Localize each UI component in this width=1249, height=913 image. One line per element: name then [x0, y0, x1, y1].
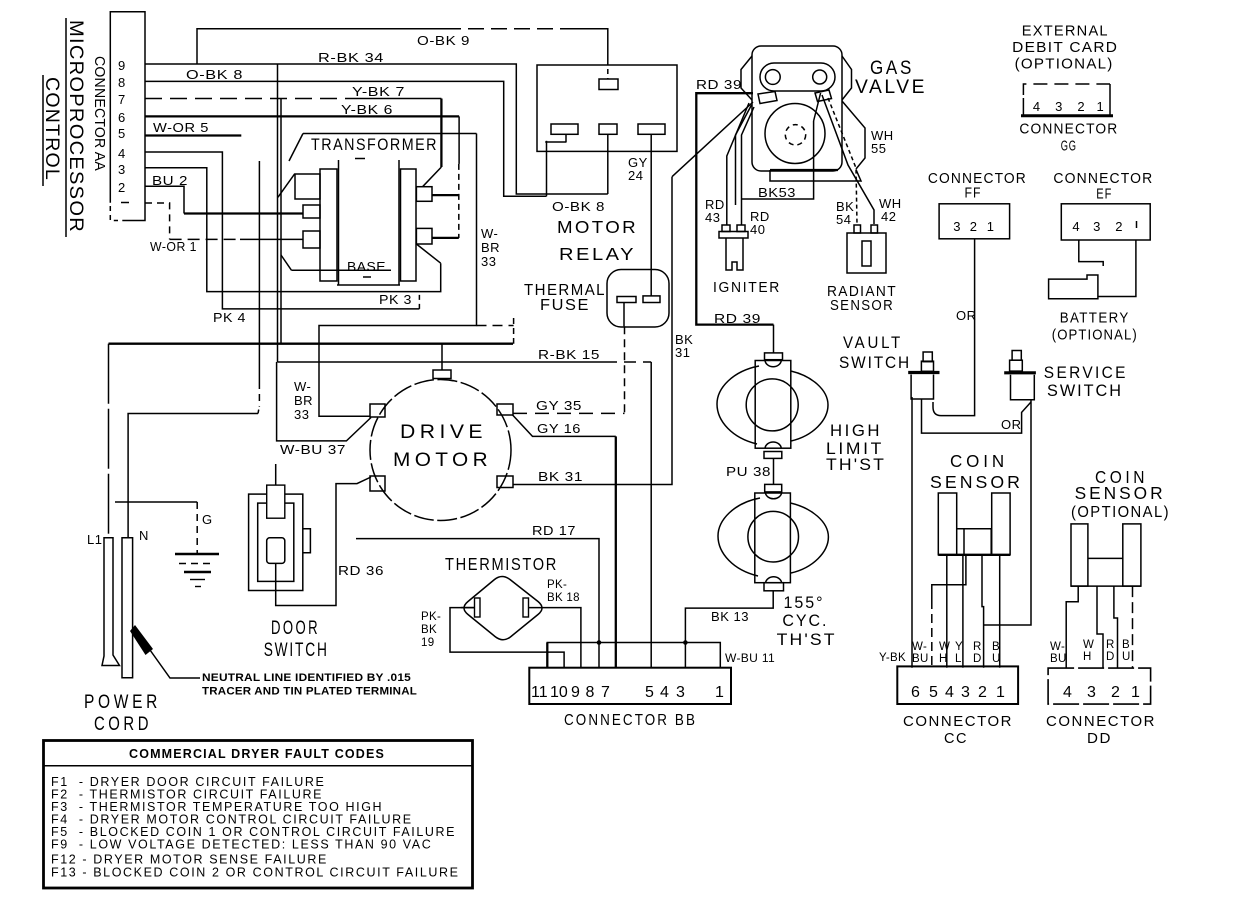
- junction dot BK13/W-BU11: [683, 640, 688, 645]
- svg-text:CONNECTOR BB: CONNECTOR BB: [564, 712, 697, 729]
- svg-text:3: 3: [1055, 99, 1063, 114]
- radiant wire dashed: [828, 98, 857, 224]
- transformer top-left diagonal: [289, 134, 303, 162]
- high limit top cap: [765, 361, 781, 367]
- gas valve inner circle dashed: [785, 125, 805, 145]
- svg-text:COIN: COIN: [950, 451, 1008, 471]
- table outer box: [44, 741, 473, 889]
- wire R-BK 15 dashed: [605, 361, 651, 363]
- svg-text:31: 31: [675, 345, 690, 360]
- connector BB box: [529, 668, 731, 704]
- wire dashed extension y325: [477, 325, 514, 327]
- wire ground pigtail: [115, 501, 197, 503]
- gas valve right wing: [842, 56, 852, 100]
- transformer core bottom plate: [337, 284, 400, 286]
- relay bold elbow horizontal: [545, 141, 566, 143]
- transformer right winding: [401, 169, 417, 281]
- wire vertical x281: [280, 99, 282, 344]
- svg-text:CONNECTOR: CONNECTOR: [1046, 714, 1156, 730]
- motor relay box: [537, 65, 677, 151]
- relay top pin: [599, 79, 618, 90]
- wire BU 2 / pin 2: [145, 186, 184, 213]
- svg-text:10: 10: [550, 684, 568, 701]
- wire YL to CC3: [962, 555, 964, 668]
- svg-text:BU: BU: [912, 653, 929, 665]
- vault switch tip: [921, 399, 923, 402]
- drive motor circle: [370, 380, 511, 521]
- wire W-OR 1 dashed part: [170, 238, 240, 240]
- svg-text:W-: W-: [912, 641, 927, 653]
- svg-text:PK-: PK-: [547, 579, 567, 591]
- wire Y-BK 6 drop: [458, 116, 460, 163]
- transformer middle-left pin box: [303, 205, 320, 218]
- wire W-OR 5 bold stub: [145, 134, 241, 136]
- svg-text:1: 1: [996, 684, 1005, 701]
- gas valve bottom bold edge: [770, 169, 838, 171]
- wire GY 24 vertical: [650, 134, 652, 296]
- svg-text:TH'ST: TH'ST: [777, 631, 837, 649]
- svg-text:6: 6: [118, 110, 126, 125]
- wire x259 vertical: [258, 161, 260, 382]
- wire PK-BK 18: [529, 608, 581, 668]
- wire R-BK 34 / pin 9: [145, 64, 608, 194]
- wire Y-BK 7 dashed part: [145, 98, 345, 100]
- svg-text:RD 36: RD 36: [338, 563, 384, 578]
- igniter bar: [719, 232, 748, 239]
- wire N riser: [128, 414, 258, 538]
- relay pin A: [551, 124, 578, 134]
- svg-text:155°: 155°: [784, 594, 825, 612]
- gas valve right coil circle: [813, 70, 827, 84]
- connector FF box: [939, 204, 1010, 239]
- svg-text:O-BK 8: O-BK 8: [552, 199, 605, 214]
- 155 left wing: [718, 498, 760, 576]
- relay pin B drop: [607, 134, 609, 194]
- svg-text:F13 - BLOCKED COIN 2 OR CONTRO: F13 - BLOCKED COIN 2 OR CONTROL CIRCUIT …: [51, 866, 460, 880]
- coin sensor right prong: [992, 493, 1010, 555]
- 155 disc circle: [748, 511, 799, 562]
- underline of CONTROL: [42, 75, 44, 186]
- svg-text:L: L: [955, 653, 962, 665]
- wire W-BU 11 bold left drop: [546, 643, 548, 668]
- svg-text:54: 54: [836, 212, 851, 227]
- wire EF pin1 to battery: [1098, 240, 1136, 297]
- svg-text:3: 3: [1087, 684, 1096, 701]
- neutral arrow: [130, 625, 153, 655]
- svg-text:8: 8: [118, 75, 126, 90]
- svg-text:NEUTRAL LINE IDENTIFIED BY .01: NEUTRAL LINE IDENTIFIED BY .015: [202, 672, 411, 684]
- svg-text:19: 19: [421, 637, 434, 649]
- gas valve left coil circle: [765, 70, 780, 85]
- svg-text:3: 3: [676, 684, 685, 701]
- gas valve right lug: [815, 90, 832, 102]
- 155 bottom terminal: [764, 583, 784, 591]
- svg-text:GG: GG: [1061, 139, 1077, 155]
- svg-text:Y-BK: Y-BK: [879, 652, 906, 664]
- gas valve top bar: [760, 63, 835, 91]
- wire Y-BK 6 dashed drop: [458, 164, 460, 238]
- wire O-BK 9 right end: [570, 29, 608, 60]
- transformer lower-right diagonal: [416, 244, 440, 263]
- wire Y-BK 7 solid part: [345, 98, 441, 100]
- svg-text:POWER: POWER: [84, 692, 161, 713]
- transformer upper tab bold wire: [432, 194, 459, 196]
- wire RD 36: [276, 477, 371, 606]
- svg-text:24: 24: [628, 168, 643, 183]
- relay pin A stub: [565, 134, 567, 142]
- svg-text:33: 33: [481, 254, 496, 269]
- svg-text:CYC.: CYC.: [782, 612, 828, 630]
- 155 top terminal: [765, 484, 782, 492]
- gas valve left lug: [758, 92, 777, 104]
- radiant sensor box: [847, 233, 886, 273]
- wire W-BU 37: [277, 362, 371, 441]
- svg-text:W-: W-: [1050, 641, 1065, 653]
- connector GG bold bottom: [1021, 114, 1113, 117]
- transformer bottom dash: [363, 276, 375, 278]
- wire x259 dashed tail: [258, 382, 260, 406]
- svg-text:TH'ST: TH'ST: [826, 456, 886, 474]
- transformer core top tick: [355, 158, 365, 160]
- svg-text:DRIVE: DRIVE: [400, 422, 487, 443]
- fuse left stem dashed to GY35: [624, 326, 626, 413]
- coin sensor middle block: [964, 529, 991, 555]
- svg-text:CONNECTOR: CONNECTOR: [1019, 122, 1118, 138]
- thermistor diamond: [464, 577, 542, 640]
- igniter terminal right: [737, 225, 745, 232]
- svg-text:BATTERY: BATTERY: [1060, 311, 1130, 327]
- svg-text:PK 4: PK 4: [213, 310, 246, 325]
- svg-text:DD: DD: [1087, 731, 1112, 747]
- svg-text:3: 3: [118, 162, 126, 177]
- svg-text:BK: BK: [421, 624, 437, 636]
- svg-text:CORD: CORD: [94, 714, 152, 735]
- svg-text:F9 - LOW VOLTAGE DETECTED: LE: F9 - LOW VOLTAGE DETECTED: LESS THAN 90 …: [51, 838, 432, 852]
- wire Y-BK 6 bold: [145, 115, 459, 117]
- svg-text:2: 2: [970, 219, 978, 234]
- wire EF pin4 to battery: [1079, 240, 1103, 266]
- motor right-upper pin: [497, 404, 513, 415]
- svg-text:4: 4: [1072, 219, 1080, 234]
- igniter body with legs: [726, 238, 743, 270]
- connector GG box: [1023, 84, 1110, 115]
- motor top pin: [433, 370, 451, 379]
- transformer lower-right tab: [416, 228, 432, 244]
- svg-text:EXTERNAL: EXTERNAL: [1022, 24, 1109, 40]
- svg-text:CC: CC: [944, 731, 968, 747]
- wire O-BK 9 branch up: [197, 29, 445, 64]
- high limit left wing: [717, 366, 759, 444]
- wire N dashed elbow: [258, 406, 259, 414]
- wire service switch down: [984, 400, 1031, 625]
- svg-text:3: 3: [1093, 219, 1101, 234]
- svg-text:W-OR 1: W-OR 1: [150, 239, 197, 254]
- svg-text:4: 4: [1033, 99, 1041, 114]
- DD sensor left prong: [1071, 524, 1088, 586]
- svg-text:4: 4: [945, 684, 954, 701]
- svg-text:BASE: BASE: [347, 259, 386, 274]
- motor left-upper pin: [370, 404, 385, 417]
- door switch plunger stem: [275, 464, 277, 485]
- svg-text:7: 7: [118, 92, 126, 107]
- door switch contact: [267, 538, 285, 564]
- svg-text:R-BK 15: R-BK 15: [538, 347, 600, 362]
- svg-text:TRACER AND TIN PLATED TERMINAL: TRACER AND TIN PLATED TERMINAL: [202, 686, 417, 698]
- service switch body: [1011, 375, 1035, 400]
- wire W-OR 1 solid part: [240, 238, 303, 240]
- svg-text:IGNITER: IGNITER: [713, 279, 781, 296]
- wire PK 4 / pin 4: [145, 152, 419, 309]
- gas valve right extension: [842, 101, 865, 169]
- wire BK53 vertical: [742, 121, 814, 199]
- coin sensor bridge: [957, 528, 992, 530]
- svg-text:BR: BR: [481, 240, 500, 255]
- coin sensor bottom bold: [938, 554, 1010, 556]
- svg-text:RELAY: RELAY: [559, 244, 636, 264]
- svg-text:B: B: [992, 641, 1000, 653]
- svg-text:SENSOR: SENSOR: [930, 472, 1023, 492]
- 155 bottom cap: [766, 577, 782, 583]
- svg-text:W-OR 5: W-OR 5: [153, 120, 209, 135]
- svg-text:L1: L1: [87, 532, 102, 547]
- relay bold elbow vertical: [546, 141, 548, 179]
- wire RD 17: [356, 539, 599, 668]
- svg-text:Y-BK 7: Y-BK 7: [352, 84, 405, 99]
- wire OR from FF: [933, 239, 975, 416]
- DD sensor bottom: [1071, 585, 1141, 587]
- svg-text:W-BU 11: W-BU 11: [725, 653, 775, 665]
- wire BK31 diagonal to valve: [672, 102, 753, 177]
- wire L1 bold line: [109, 343, 514, 345]
- wire DD RD: [1114, 586, 1118, 668]
- wire R-BK 15 drop: [650, 362, 652, 668]
- svg-text:RD 17: RD 17: [532, 523, 576, 538]
- wire BK 31: [513, 177, 672, 485]
- svg-text:4: 4: [118, 146, 126, 161]
- svg-text:BU 2: BU 2: [152, 173, 188, 188]
- vault switch flange: [908, 371, 939, 374]
- svg-text:SENSOR: SENSOR: [830, 297, 894, 314]
- wire GY 16: [513, 415, 616, 436]
- service switch base: [1010, 360, 1023, 371]
- transformer left core bar: [338, 160, 340, 285]
- wire vertical x277 R-BK net: [277, 64, 279, 362]
- svg-text:GY 35: GY 35: [536, 398, 582, 413]
- motor top pin stub: [441, 344, 443, 370]
- svg-text:BU: BU: [1050, 653, 1067, 665]
- wire thermistor left stub: [461, 607, 475, 609]
- wire O-BK 9 dashed middle: [445, 28, 570, 30]
- svg-text:11: 11: [531, 684, 548, 701]
- connector GG dashed top: [1023, 84, 1110, 95]
- fuse right pin bar: [643, 296, 660, 303]
- svg-text:2: 2: [1077, 99, 1085, 114]
- EF pin 1 tick: [1136, 221, 1138, 228]
- svg-text:CONNECTOR: CONNECTOR: [1053, 171, 1153, 187]
- DD sensor right prong: [1123, 524, 1141, 586]
- transformer left winding: [320, 169, 337, 281]
- thermistor right pin bar: [523, 598, 529, 617]
- wire GY 35 dashed: [513, 412, 625, 414]
- wire RD 39 bold top: [696, 93, 773, 324]
- svg-text:33: 33: [294, 407, 309, 422]
- svg-text:PK 3: PK 3: [379, 292, 412, 307]
- wire ground dashed drop: [196, 502, 198, 553]
- svg-text:SWITCH: SWITCH: [839, 354, 911, 372]
- connector AA box: [110, 12, 145, 221]
- svg-text:(OPTIONAL): (OPTIONAL): [1052, 328, 1138, 344]
- wire BU to CC1: [999, 555, 1001, 668]
- svg-text:THERMISTOR: THERMISTOR: [445, 554, 558, 574]
- transformer right core bar: [398, 160, 400, 285]
- svg-text:55: 55: [871, 141, 886, 156]
- transformer upper-right tab: [416, 187, 432, 202]
- svg-text:Y: Y: [955, 641, 963, 653]
- svg-text:SWITCH: SWITCH: [264, 640, 329, 661]
- svg-text:PK-: PK-: [421, 611, 441, 623]
- battery body: [1049, 275, 1098, 299]
- svg-text:1: 1: [715, 684, 724, 701]
- svg-text:W-: W-: [294, 379, 311, 394]
- gas valve burner circle: [765, 104, 825, 164]
- svg-text:COMMERCIAL DRYER FAULT CODES: COMMERCIAL DRYER FAULT CODES: [129, 746, 385, 761]
- relay pin B: [599, 124, 617, 134]
- power cord right strip: [122, 538, 133, 678]
- svg-text:1: 1: [987, 219, 995, 234]
- high limit disc circle: [746, 379, 798, 431]
- high limit top terminal: [765, 353, 783, 360]
- svg-text:FUSE: FUSE: [540, 297, 590, 314]
- connector DD box: [1048, 668, 1151, 704]
- svg-text:3: 3: [961, 684, 970, 701]
- svg-text:(OPTIONAL): (OPTIONAL): [1015, 57, 1114, 73]
- svg-text:O-BK 9: O-BK 9: [417, 33, 470, 48]
- transformer upper-left pin box: [295, 174, 320, 199]
- pin 1 (dash): [121, 202, 129, 204]
- ground bar 5: [195, 586, 201, 588]
- connector CC box: [897, 666, 1018, 704]
- svg-text:SENSOR: SENSOR: [1075, 483, 1166, 503]
- svg-text:MOTOR: MOTOR: [557, 217, 638, 237]
- transformer bottom-left diagonal: [281, 255, 292, 270]
- door switch plunger: [267, 485, 285, 518]
- vault switch body: [911, 375, 933, 400]
- svg-text:4: 4: [1063, 684, 1072, 701]
- high limit body rect: [755, 361, 791, 449]
- svg-text:D: D: [973, 653, 982, 665]
- svg-text:GAS: GAS: [870, 58, 914, 79]
- relay elbow thin tail: [546, 179, 548, 196]
- svg-text:SERVICE: SERVICE: [1044, 364, 1128, 382]
- wire DD W-BU: [1066, 586, 1078, 668]
- svg-text:W-: W-: [481, 226, 498, 241]
- svg-text:MICROPROCESSOR: MICROPROCESSOR: [65, 20, 86, 233]
- wire Y-BK 7 bold drop: [440, 99, 442, 168]
- wire GY 16 bold drop: [615, 436, 617, 667]
- ground bar 4: [190, 579, 205, 581]
- svg-text:FF: FF: [965, 186, 982, 202]
- wire Y-BK 7 diagonal to tab: [423, 167, 442, 187]
- fuse left pin stem: [623, 303, 625, 327]
- coin sensor left prong: [938, 493, 956, 555]
- svg-text:OR: OR: [1001, 417, 1022, 432]
- svg-text:9: 9: [571, 684, 580, 701]
- svg-text:H: H: [939, 653, 948, 665]
- wire OR vault-service: [922, 402, 1032, 433]
- high limit right wing: [791, 371, 828, 441]
- svg-text:BK53: BK53: [758, 185, 796, 200]
- svg-text:R: R: [973, 641, 982, 653]
- underline of MICROPROCESSOR: [65, 18, 67, 237]
- svg-text:43: 43: [705, 210, 720, 225]
- svg-text:R: R: [1106, 639, 1115, 651]
- relay pin C: [638, 124, 665, 134]
- svg-text:BK 31: BK 31: [538, 469, 583, 484]
- door switch outer box: [249, 494, 303, 590]
- motor right-lower pin: [497, 476, 513, 488]
- svg-text:W-BU 37: W-BU 37: [280, 442, 346, 457]
- svg-text:CONNECTOR: CONNECTOR: [903, 714, 1013, 730]
- svg-text:BR: BR: [294, 393, 313, 408]
- connector EF box: [1061, 204, 1150, 240]
- svg-text:OR: OR: [956, 308, 977, 323]
- wire L1 drop to power cord: [108, 344, 110, 538]
- wire vault to CC bold: [911, 397, 913, 668]
- svg-text:PU 38: PU 38: [726, 464, 771, 479]
- wire RD jog to CC2: [982, 555, 984, 668]
- wire BU 2 bold: [184, 212, 303, 214]
- transformer lower tab bold wire: [432, 237, 459, 239]
- high limit bottom terminal: [764, 452, 782, 459]
- svg-text:RD 39: RD 39: [696, 77, 742, 92]
- wire PK-BK 19: [450, 608, 564, 668]
- wire PK 3 / pin 3: [145, 168, 441, 292]
- svg-text:D: D: [1106, 651, 1115, 663]
- ground bar 3: [184, 571, 211, 573]
- igniter wire right: [742, 107, 755, 225]
- svg-text:3: 3: [953, 219, 961, 234]
- radiant sensor terminal left: [854, 225, 861, 233]
- wire PU 38: [773, 458, 775, 484]
- gas valve bottom loop: [770, 170, 861, 182]
- svg-text:BK 13: BK 13: [711, 609, 749, 624]
- svg-text:Y-BK 6: Y-BK 6: [341, 102, 393, 117]
- radiant sensor terminal right: [871, 225, 878, 233]
- service switch flange: [1004, 371, 1036, 374]
- wire PK 4 dashed riser: [418, 294, 420, 309]
- svg-text:CONNECTOR AA: CONNECTOR AA: [91, 56, 108, 171]
- svg-text:2: 2: [978, 684, 987, 701]
- svg-text:B: B: [1122, 639, 1130, 651]
- ground bar 2 dashed: [179, 563, 215, 565]
- wire O-BK 9 dashed drop: [607, 60, 609, 79]
- svg-text:9: 9: [118, 58, 126, 73]
- power cord left strip: [102, 538, 120, 666]
- ground bar 1: [175, 553, 219, 556]
- door switch inner box: [258, 503, 294, 581]
- svg-text:G: G: [202, 512, 213, 527]
- vault switch plunger: [923, 352, 932, 362]
- svg-text:42: 42: [881, 209, 896, 224]
- service switch plunger: [1012, 351, 1021, 361]
- gas valve left wing: [741, 56, 752, 100]
- connector AA box dashed corner: [110, 206, 118, 221]
- svg-text:R-BK 34: R-BK 34: [318, 50, 384, 65]
- wire DD WH: [1097, 586, 1103, 668]
- svg-text:CONTROL: CONTROL: [41, 77, 62, 181]
- svg-text:VAULT: VAULT: [843, 334, 903, 352]
- svg-text:2: 2: [118, 180, 126, 195]
